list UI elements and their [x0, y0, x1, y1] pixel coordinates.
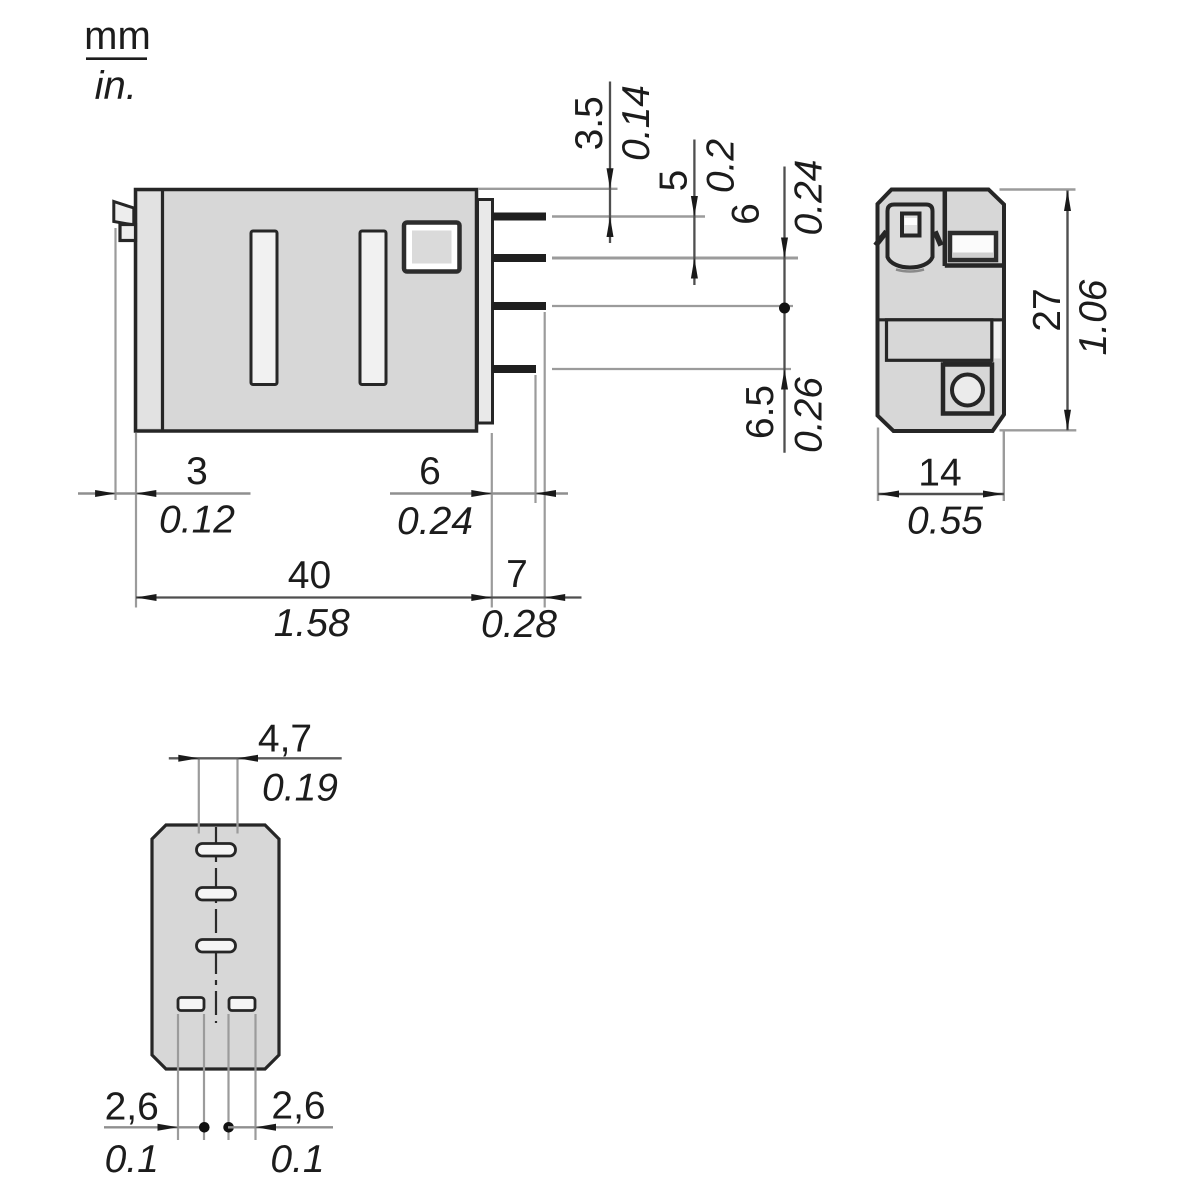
extension line tab left: [114, 228, 116, 500]
side view slot 1: [251, 231, 277, 385]
side view marking square inner: [412, 231, 452, 264]
svg-text:7: 7: [506, 553, 528, 596]
svg-text:0.55: 0.55: [907, 500, 983, 543]
side view slot 2: [360, 231, 386, 385]
extension line pin 2: [552, 257, 798, 260]
extension line body left: [135, 433, 137, 608]
dimension 4,7 ext right: [236, 759, 238, 834]
dimension 6 bottom line: [390, 492, 568, 494]
dimension 4,7 ext left: [198, 759, 200, 834]
bottom ext pad left inner: [203, 1014, 205, 1140]
front view label window: [950, 233, 996, 260]
svg-text:0.28: 0.28: [481, 603, 557, 646]
side view mounting tab: [114, 202, 134, 226]
svg-text:0.12: 0.12: [159, 499, 235, 542]
units fraction bar: [86, 57, 147, 60]
front view latch outer: [888, 205, 933, 268]
side view pin carrier: [478, 200, 493, 424]
svg-text:1.58: 1.58: [274, 602, 350, 645]
svg-text:mm: mm: [84, 14, 151, 58]
front view body octagon: [878, 190, 1005, 432]
dimension 2,6 left line: [104, 1126, 205, 1128]
side view mounting hook: [120, 225, 136, 241]
svg-text:0.14: 0.14: [615, 85, 658, 161]
front view label window shade: [953, 253, 993, 258]
svg-text:40: 40: [288, 554, 331, 597]
bottom ext pad right outer: [254, 1014, 256, 1140]
side view marking square: [404, 223, 460, 272]
front view right notch: [935, 232, 941, 246]
dimension 14 line: [878, 493, 1004, 495]
svg-text:in.: in.: [95, 64, 137, 108]
bottom view pin pad left: [178, 998, 204, 1011]
svg-text:0.1: 0.1: [105, 1138, 159, 1181]
bottom view slot 2: [197, 888, 236, 901]
extension line carrier right: [491, 433, 493, 608]
front view latch arc shadow: [896, 270, 924, 272]
side view inner vertical line: [161, 191, 164, 430]
dimension 4,7 line: [169, 757, 342, 759]
dimension 2,6 right line: [228, 1126, 333, 1128]
front view line under window: [945, 263, 1002, 268]
dimension 27 line: [1066, 191, 1068, 431]
dimension 2,6 left dot: [199, 1122, 210, 1133]
dimension 6 / 6.5 line: [783, 167, 785, 453]
front view circle: [952, 375, 983, 406]
front view mid line: [878, 318, 1003, 321]
svg-text:0.24: 0.24: [788, 160, 831, 236]
svg-text:5: 5: [653, 170, 696, 192]
extension line body top: [478, 188, 618, 190]
front view bottom-right square: [943, 365, 992, 414]
svg-text:1.06: 1.06: [1072, 279, 1115, 355]
dimension 5 line: [693, 140, 695, 286]
svg-text:6.5: 6.5: [739, 385, 782, 439]
svg-text:0.26: 0.26: [788, 377, 831, 453]
extension line pin 4: [552, 368, 791, 370]
svg-text:3.5: 3.5: [568, 96, 611, 150]
bottom view centerline: [215, 827, 217, 1023]
svg-text:2,6: 2,6: [105, 1086, 159, 1129]
bottom view slot 1: [197, 844, 236, 857]
extension line pin 3: [552, 305, 793, 307]
svg-text:0.2: 0.2: [700, 139, 743, 194]
extension line pin4 end: [534, 375, 536, 503]
pin 2: [493, 254, 547, 262]
bottom view body octagon: [152, 825, 279, 1069]
svg-text:4,7: 4,7: [258, 718, 312, 761]
side view relay body: [136, 190, 477, 432]
front view band right slit: [994, 322, 1001, 359]
front view band-square join: [943, 361, 992, 368]
front view latch inner square: [902, 214, 920, 236]
pin 4: [493, 365, 537, 373]
svg-text:0.24: 0.24: [397, 500, 473, 543]
front view divider: [943, 191, 948, 266]
front view left notch: [876, 232, 887, 246]
svg-text:14: 14: [918, 452, 961, 495]
extension line pin 1: [552, 215, 705, 217]
front view latch inner highlight: [905, 218, 918, 225]
svg-text:0.19: 0.19: [262, 767, 338, 810]
svg-text:3: 3: [186, 450, 208, 493]
bottom ext pad right inner: [227, 1014, 229, 1140]
pin 1: [493, 213, 547, 221]
dimension 40 / 7 line: [136, 596, 582, 598]
bottom view pin pad right: [229, 998, 255, 1011]
front ext bottom left vertical: [877, 428, 879, 502]
shared node dot: [779, 303, 790, 314]
front view band: [887, 320, 992, 361]
front ext bottom right: [1000, 429, 1077, 431]
front ext bottom right vertical: [1003, 431, 1005, 502]
dimension 2,6 right dot: [223, 1122, 234, 1133]
svg-text:0.1: 0.1: [270, 1138, 324, 1181]
svg-text:6: 6: [419, 450, 441, 493]
svg-text:6: 6: [725, 203, 768, 225]
bottom ext pad left outer: [177, 1014, 179, 1140]
extension line pin3 end: [544, 312, 546, 608]
side view left strip highlight: [138, 192, 161, 428]
svg-text:27: 27: [1026, 288, 1069, 331]
svg-text:2,6: 2,6: [271, 1085, 325, 1128]
bottom view slot 3: [197, 940, 236, 953]
pin 3: [493, 302, 547, 310]
front ext top right: [1000, 188, 1076, 190]
dimension 3 line: [78, 492, 251, 494]
dimension 3.5 line: [609, 82, 611, 244]
